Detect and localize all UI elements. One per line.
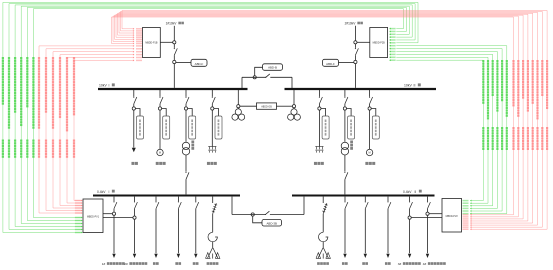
node label: 2# transformer LV side (124, 262, 147, 266)
node label: right green strip 2 text (487, 60, 489, 150)
wire: LV outgoing line x=195.8 (194, 209, 197, 258)
wire: 2# incomer drop with disconnector QS2 and nodes (354, 26, 359, 88)
LV outgoing feeder at x=388: switch (387, 197, 390, 209)
node label: 3# transformer LV side (398, 262, 421, 266)
svg-text:1#: 1# (102, 262, 106, 266)
breaker QF1 feeder koutgoing: disconnect+node (132, 90, 137, 110)
node label: compensation 2 (wugongbuchang) (317, 262, 329, 265)
wire: left interlock signal G1 (PV1 to P2B via top band) (3, 2, 418, 233)
wire: right interlock signal R1 (P1B to PV2 via top band) (112, 17, 514, 216)
LV breaker 1F2: switch (134, 197, 137, 209)
transformer PT1 (three-winding PT cluster) (232, 108, 245, 120)
node label: outgoing (chuxian) x=365.3 (362, 262, 368, 265)
wire: feeder 1 outgoing line (132, 110, 136, 152)
relay box ABD-7 (371, 109, 379, 140)
svg-text:ABD-F: ABD-F (195, 62, 204, 66)
svg-text:MBDD-P1B: MBDD-P1B (145, 43, 157, 45)
wire: PV2 tap to 3# transformer LV incomer (408, 216, 442, 219)
LV breaker 2F2: switch (427, 197, 430, 209)
node label: right green strip 6 text (506, 60, 508, 150)
svg-text:I: I (109, 84, 110, 88)
relay box ABD-3 (188, 109, 196, 140)
wire: LV outgoing line x=365.3 (364, 209, 367, 258)
svg-text:ABDD-GB: ABDD-GB (261, 106, 272, 109)
wire: right interlock signal G4 (PV2 to P2B) (389, 51, 497, 210)
wire: right interlock signal G6 (PV2 to P2B) (389, 45, 507, 215)
wire: 3# transformer LV incomer line (408, 209, 411, 258)
motor M2 (366, 149, 372, 155)
wire: feeder 5 to capacitor (318, 110, 320, 146)
breaker QF3 transformer feeder: disconnect+node (184, 90, 189, 110)
breaker QF4 capacitor feeder: disconnect+node (211, 90, 216, 110)
node label: left green strip 5 text (26, 57, 28, 158)
wire: right interlock signal R7 (P1B to PV2 via top band) (121, 11, 543, 228)
node label: right green strip 4 text (496, 60, 498, 150)
node label: right green strip 5 text (501, 60, 503, 150)
breaker box ABD-3B (LV bus tie) (253, 216, 282, 226)
svg-text:2#10kV: 2#10kV (345, 22, 357, 26)
relay box MBDD-PV1 (83, 199, 103, 233)
svg-text:MBDD-PV2: MBDD-PV2 (446, 216, 459, 218)
bus: 10kV bus I (98, 88, 248, 90)
node label: right green strip 3 text (492, 60, 494, 150)
node label: outgoing (chuxian) x=156 (153, 262, 159, 265)
node label: right green strip 1 text (482, 60, 484, 150)
wire: right interlock signal R3 (P1B to PV2 via top band) (115, 15, 524, 220)
node label: 4# transformer LV side (423, 262, 446, 266)
node label: feeder 1 (kuixian) (131, 162, 137, 165)
breaker box ABD-F (incomer 2) (323, 59, 354, 66)
wire: left interlock signal G5 (PV1 to P2B via top band) (27, 7, 406, 221)
wire: 2# transformer LV incomer line (133, 209, 136, 258)
LV outgoing feeder at x=195.8: switch (195, 197, 198, 209)
wire: right interlock signal R5 (P1B to PV2 via top band) (118, 13, 533, 224)
wire: 0.4kV bus-tie link with open switch (232, 197, 304, 216)
wire: right interlock signal G1 (PV2 to P2B) (389, 59, 483, 201)
relay box MBDD-P2B (370, 28, 388, 58)
bus: 0.4kV bus II (292, 195, 435, 197)
transformer T2 (10/0.4kV) (341, 142, 348, 155)
breaker QF5 capacitor feeder: disconnect+node (318, 90, 323, 110)
transformer PT2 (three-winding PT cluster) (288, 108, 301, 120)
wire: left interlock signal R1 (P1B to PV1) (39, 45, 142, 214)
capacitor bank C2 (315, 147, 323, 153)
svg-text:ABD-F: ABD-F (326, 62, 335, 66)
node label: transformer T1 (peidianbian) (191, 141, 194, 150)
node label: right red strip 2 text (517, 60, 519, 150)
wire: PT/grounding transformer link across bus sections (237, 90, 296, 108)
wire: left interlock signal R5 (P1B to PV1) (67, 57, 142, 204)
wire: feeder 3 to transformer T1 (185, 110, 187, 142)
wire: left interlock signal G3 (PV1 to P2B via top band) (15, 5, 412, 228)
wire: feeder 6 to transformer T2 (344, 110, 346, 142)
wire: left interlock signal G2 (PV1 to P2B via top band) (9, 4, 415, 231)
reactive compensation branch 2 (fuse+reactor+delta capacitor) (316, 197, 330, 259)
node label: right red strip 6 text (536, 60, 538, 150)
wire: PV1 tap to 1# transformer LV incomer (103, 212, 116, 215)
wire: left interlock signal G4 (PV1 to P2B via top band) (21, 6, 409, 224)
wire: LV outgoing line x=178.4 (177, 209, 180, 258)
svg-text:4#: 4# (423, 262, 427, 266)
relay box ABD-6 (347, 109, 355, 140)
node label: right red strip 3 text (522, 60, 524, 150)
node label: outgoing (chuxian) x=178.4 (175, 262, 181, 265)
relay box ABD-2 (162, 109, 170, 140)
node label: compensation 1 (wugongbuchang) (207, 262, 219, 265)
motor M1 (157, 149, 163, 155)
wire: left interlock signal R6 (P1B to PV1) (74, 59, 142, 201)
LV breaker 2F1: switch (409, 197, 412, 209)
svg-text:10kV: 10kV (404, 84, 412, 88)
svg-text:I: I (109, 190, 110, 194)
svg-text:MBDD-P2B: MBDD-P2B (373, 43, 385, 45)
wire: feeder 4 to capacitor (211, 110, 213, 146)
wire: 1# incomer drop with disconnector QS1 and nodes (173, 26, 178, 88)
node label: left green strip 3 text (14, 57, 16, 158)
svg-text:10kV: 10kV (99, 84, 107, 88)
LV breaker under T2: switch (344, 197, 347, 209)
relay box MBDD-P1B (143, 28, 161, 58)
node label: transformer T2 (peidianbian) (350, 141, 353, 150)
reactive compensation branch 1 (fuse+reactor+delta capacitor) (206, 197, 220, 259)
wire: LV outgoing below T2 (344, 196, 346, 198)
breaker QF7 motor feeder: disconnect+node (368, 90, 373, 110)
wire: P2B CT tap to incomer 2 (357, 41, 370, 43)
wire: PV1 tap to 2# transformer LV incomer (103, 216, 136, 219)
wire: right interlock signal R4 (P1B to PV2 via top band) (116, 14, 528, 222)
node label: 2#10kV incoming feeder (345, 22, 363, 26)
svg-text:M: M (159, 151, 161, 155)
wire: P1B CT tap to incomer 1 (160, 41, 172, 43)
node label: right red strip 1 text (512, 60, 514, 150)
wire: left interlock signal R2 (P1B to PV1) (46, 48, 142, 212)
LV outgoing feeder at x=178.4: switch (178, 197, 181, 209)
svg-text:II: II (415, 190, 417, 194)
capacitor bank C1 (208, 147, 216, 153)
wire: 4# transformer LV incomer line (426, 209, 429, 258)
node label: motor feeder 2 (365, 162, 375, 165)
node label: right red strip 7 text (541, 60, 543, 150)
node label: 0.4kV I bus (97, 190, 115, 194)
node label: left red strip 5 text (66, 57, 68, 158)
svg-text:2#: 2# (124, 262, 128, 266)
LV breaker 1F1: switch (113, 197, 116, 209)
bus: 0.4kV bus I (93, 195, 240, 197)
node label: 1# transformer LV side (102, 262, 125, 266)
wire: LV outgoing line under T2 (343, 209, 346, 258)
svg-text:1#10kV: 1#10kV (166, 22, 178, 26)
node label: outgoing under T2 (342, 262, 348, 265)
svg-text:0.4kV: 0.4kV (403, 190, 412, 194)
wire: right interlock signal G5 (PV2 to P2B) (389, 48, 502, 212)
wire: right interlock signal G2 (PV2 to P2B) (389, 56, 488, 204)
wire: left interlock signal R3 (P1B to PV1) (53, 51, 142, 209)
LV outgoing feeder at x=156: switch (155, 197, 158, 209)
node label: left red strip 2 text (45, 57, 47, 158)
wire: 10kV bus-tie link with open disconnector (242, 74, 292, 88)
svg-text:ABD-3B: ABD-3B (266, 221, 277, 225)
wire: LV outgoing line x=388 (386, 209, 389, 258)
wire: T2 secondary with disconnector to 0.4kV bus II (344, 155, 348, 194)
node label: left green strip 4 text (20, 57, 22, 158)
node label: left red strip 6 text (73, 57, 75, 158)
relay box ABD-4 (214, 109, 222, 140)
svg-text:3#: 3# (398, 262, 402, 266)
wire: right interlock signal G3 (PV2 to P2B) (389, 53, 492, 206)
node label: capacitor feeder (207, 162, 217, 165)
transformer T1 (10/0.4kV) (182, 142, 189, 155)
relay box ABDD-GB (257, 103, 277, 109)
breaker QF6 transformer feeder: disconnect+node (343, 90, 348, 110)
wire: right interlock signal R6 (P1B to PV2 via top band) (119, 12, 538, 226)
wire: PV2 tap to 4# transformer LV incomer (426, 212, 442, 215)
node label: left red strip 1 text (38, 57, 40, 158)
svg-text:ABD-B: ABD-B (268, 66, 277, 70)
wire: T1 secondary with disconnector to 0.4kV bus I (185, 155, 189, 194)
node label: motor feeder (156, 162, 166, 165)
wire: feeder 7 to motor (369, 110, 371, 149)
wire: 1# transformer LV incomer line (112, 209, 115, 258)
LV outgoing feeder at x=365.3: switch (365, 197, 368, 209)
node label: right red strip 8 text (546, 60, 548, 150)
wire: right interlock signal R2 (P1B to PV2 via top band) (113, 16, 518, 218)
node label: left green strip 2 text (8, 57, 10, 158)
node label: 10kV II bus (404, 83, 421, 87)
node label: capacitor feeder 2 (314, 162, 324, 165)
node label: right red strip 4 text (527, 60, 529, 150)
svg-text:0.4kV: 0.4kV (97, 190, 106, 194)
node label: left red strip 4 text (59, 57, 61, 158)
node label: 0.4kV II bus (403, 190, 422, 194)
relay box ABD-1 (135, 109, 143, 140)
breaker box ABD-F (incomer 1) (176, 59, 207, 66)
node label: left green strip 6 text (32, 57, 34, 158)
wire: left interlock signal G6 (PV1 to P2B via top band) (33, 9, 403, 219)
relay box ABD-5 (321, 109, 329, 140)
node label: left red strip 3 text (52, 57, 54, 158)
bus: 10kV bus II (285, 88, 437, 90)
wire: LV outgoing line x=156 (154, 209, 157, 258)
svg-text:MBDD-PV1: MBDD-PV1 (87, 216, 100, 218)
node label: right red strip 5 text (532, 60, 534, 150)
node label: 1#10kV incoming feeder (166, 22, 184, 26)
wire: left interlock signal R4 (P1B to PV1) (60, 54, 142, 207)
node label: 10kV I bus (99, 83, 115, 87)
node label: outgoing (chuxian) x=195.8 (193, 262, 199, 265)
breaker QF2 motor feeder: disconnect+node (158, 90, 163, 110)
svg-text:M: M (369, 151, 371, 155)
relay box MBDD-PV2 (442, 199, 462, 233)
node label: left green strip 1 text (2, 57, 4, 158)
breaker box ABD-B (bus tie) (255, 64, 283, 76)
wire: feeder 2 to motor (159, 110, 161, 149)
wire: right interlock signal R8 (P1B to PV2 via top band) (122, 11, 547, 231)
svg-text:II: II (414, 84, 416, 88)
node label: outgoing (chuxian) x=388 (385, 262, 391, 265)
